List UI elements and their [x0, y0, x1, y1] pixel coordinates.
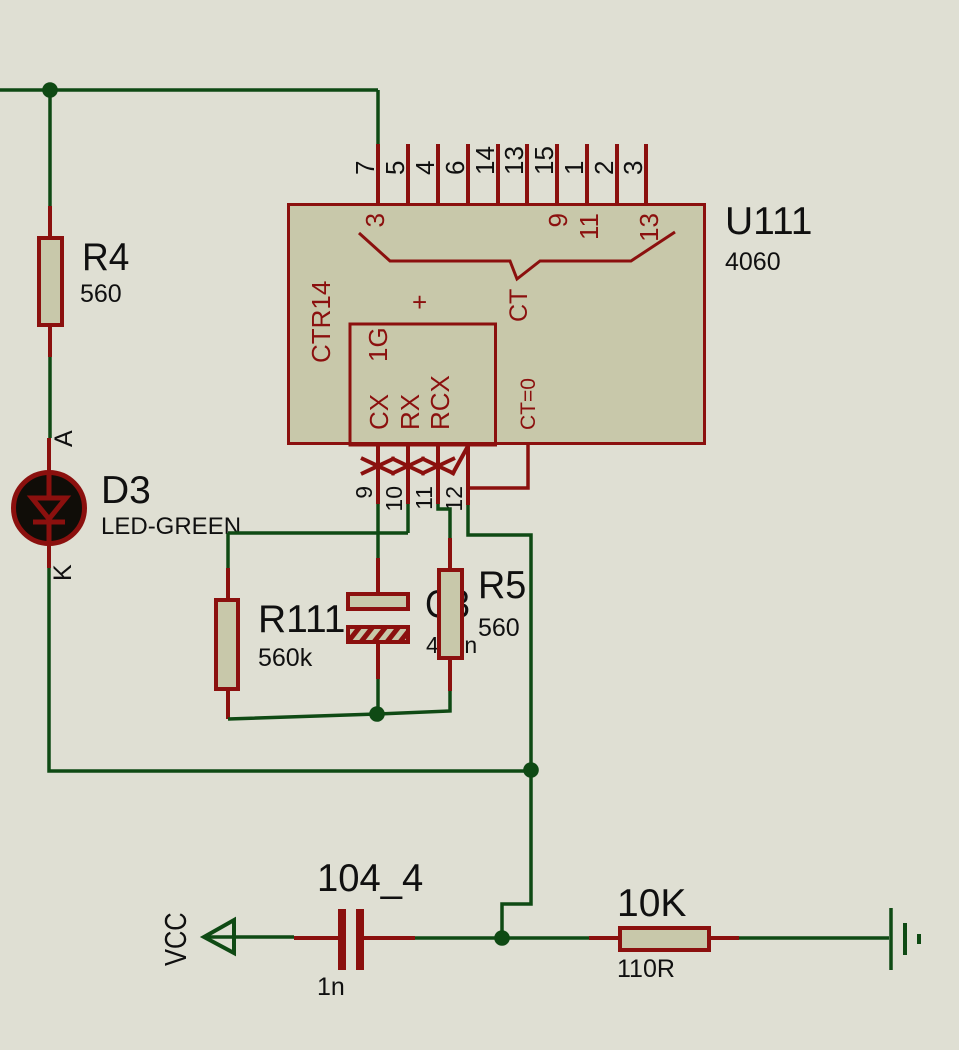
IC inner box [350, 324, 496, 445]
svg-text:A: A [50, 430, 78, 447]
wire VCC to C104 [206, 935, 294, 939]
wire pin10 down [406, 504, 410, 533]
wire C104 to junction [415, 936, 502, 940]
wire R10K to ground [739, 936, 889, 940]
svg-text:+: + [412, 287, 427, 317]
svg-text:CT=0: CT=0 [517, 378, 540, 430]
ground [891, 908, 919, 970]
resistor R4 [39, 206, 62, 357]
wire pin7 drop [376, 90, 380, 144]
svg-text:3: 3 [618, 161, 648, 175]
node junction C3 bottom [369, 706, 385, 722]
wire left vertical to R4 [48, 90, 52, 206]
svg-text:11: 11 [574, 213, 604, 240]
resistor 10K [589, 928, 739, 950]
wire C3 bottom [376, 679, 380, 713]
node junction top-left [42, 82, 58, 98]
IC U111 body [289, 205, 705, 444]
svg-text:14: 14 [470, 146, 500, 175]
node junction bottom rail [494, 930, 510, 946]
svg-text:10K: 10K [617, 882, 686, 925]
wire bottom net R111 C3 R5 [228, 691, 450, 719]
wire top rail [0, 88, 378, 92]
svg-text:1G: 1G [363, 327, 393, 362]
svg-text:U111: U111 [725, 200, 812, 243]
IC top pins [378, 144, 646, 204]
svg-text:5: 5 [380, 161, 410, 175]
svg-text:13: 13 [499, 146, 529, 175]
wire junction to bottom rail [502, 770, 531, 938]
svg-text:2: 2 [589, 161, 619, 175]
pin analog mark X pin9 [361, 458, 395, 474]
svg-text:R111: R111 [258, 598, 345, 641]
wire junction to R10K [502, 936, 589, 940]
svg-text:13: 13 [634, 213, 664, 242]
wire horizontal R111 top [228, 531, 408, 535]
svg-text:6: 6 [440, 161, 470, 175]
svg-text:CTR14: CTR14 [306, 281, 336, 363]
svg-text:560k: 560k [258, 644, 313, 672]
svg-text:9: 9 [543, 213, 573, 227]
svg-text:1n: 1n [317, 973, 345, 1001]
svg-text:7: 7 [350, 161, 380, 175]
pin analog mark X pin11 [421, 458, 455, 474]
wire pin12 down and right [468, 505, 531, 770]
svg-text:CX: CX [364, 394, 394, 430]
svg-text:110R: 110R [617, 955, 675, 983]
pin slash mark pin12 [452, 446, 468, 475]
svg-text:CT: CT [505, 289, 533, 322]
wire R4 to LED [48, 357, 52, 438]
svg-text:R5: R5 [478, 563, 526, 607]
svg-text:10: 10 [381, 486, 407, 512]
wire LED cathode down-left rail [49, 568, 531, 771]
svg-text:11: 11 [411, 486, 437, 510]
svg-text:LED-GREEN: LED-GREEN [101, 513, 241, 540]
IC output bracket [359, 232, 675, 279]
svg-text:4060: 4060 [725, 248, 781, 276]
svg-text:K: K [49, 564, 77, 581]
svg-text:15: 15 [529, 146, 559, 175]
svg-text:560: 560 [80, 280, 122, 308]
wire pin9 down [376, 504, 380, 558]
svg-text:3: 3 [360, 213, 390, 227]
node junction lower right [523, 762, 539, 778]
resistor R111 [216, 533, 238, 719]
capacitor C3 [340, 558, 422, 679]
svg-text:9: 9 [351, 486, 377, 499]
svg-text:1: 1 [559, 161, 589, 175]
svg-text:560: 560 [478, 614, 520, 642]
resistor R5 [439, 538, 462, 691]
LED D3 [14, 438, 85, 568]
capacitor 104_4 [294, 909, 415, 970]
svg-text:104_4: 104_4 [317, 857, 423, 900]
svg-text:RCX: RCX [425, 375, 455, 430]
pin analog mark X pin10 [391, 458, 425, 474]
svg-text:R4: R4 [82, 236, 129, 279]
wire CT=0 to pin12 red [468, 445, 528, 488]
svg-text:VCC: VCC [159, 912, 194, 966]
svg-text:4: 4 [410, 161, 440, 175]
svg-text:RX: RX [395, 394, 425, 430]
power VCC [204, 920, 234, 953]
IC bottom pins [378, 445, 468, 505]
wire pin11 jog to R5 [438, 504, 450, 538]
svg-text:D3: D3 [101, 469, 151, 512]
